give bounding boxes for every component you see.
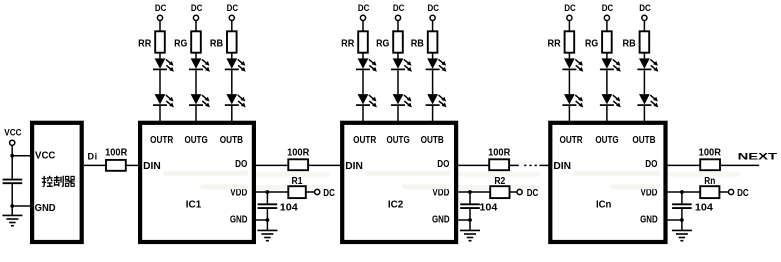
svg-text:IC1: IC1 — [186, 199, 202, 210]
svg-text:Rn: Rn — [704, 176, 715, 187]
svg-text:RR: RR — [548, 38, 562, 49]
svg-text:104: 104 — [280, 203, 298, 214]
svg-text:100R: 100R — [287, 147, 310, 158]
svg-text:OUTG: OUTG — [185, 135, 208, 146]
svg-text:104: 104 — [479, 203, 497, 214]
svg-text:NEXT: NEXT — [738, 151, 778, 161]
svg-text:OUTR: OUTR — [150, 135, 174, 146]
svg-text:GND: GND — [432, 214, 450, 225]
svg-text:OUTG: OUTG — [387, 135, 410, 146]
svg-text:DC: DC — [155, 3, 167, 13]
svg-text:RR: RR — [341, 38, 355, 49]
svg-text:OUTR: OUTR — [353, 135, 377, 146]
svg-text:RB: RB — [411, 38, 424, 49]
svg-text:DC: DC — [227, 3, 239, 13]
svg-text:DC: DC — [358, 3, 370, 13]
svg-text:DC: DC — [393, 3, 405, 13]
svg-text:DO: DO — [645, 159, 657, 170]
svg-text:DC: DC — [737, 188, 749, 199]
svg-text:DO: DO — [235, 159, 247, 170]
svg-text:100R: 100R — [699, 148, 722, 159]
svg-text:DC: DC — [323, 188, 335, 199]
svg-text:GND: GND — [640, 214, 658, 225]
svg-text:GND: GND — [35, 203, 56, 214]
svg-text:VDD: VDD — [432, 188, 449, 199]
svg-text:DC: DC — [602, 3, 614, 13]
svg-text:OUTB: OUTB — [220, 135, 243, 146]
svg-text:OUTR: OUTR — [560, 135, 584, 146]
svg-text:DIN: DIN — [345, 161, 363, 172]
svg-text:GND: GND — [230, 214, 248, 225]
svg-text:Di: Di — [88, 151, 98, 162]
svg-text:DC: DC — [564, 3, 576, 13]
svg-text:DIN: DIN — [143, 161, 161, 172]
svg-text:RG: RG — [376, 38, 389, 49]
svg-text:DIN: DIN — [553, 161, 571, 172]
svg-text:DC: DC — [527, 188, 539, 199]
svg-text:OUTB: OUTB — [632, 135, 655, 146]
svg-text:R2: R2 — [494, 176, 505, 187]
svg-text:RG: RG — [174, 38, 187, 49]
svg-text:100R: 100R — [488, 147, 511, 158]
svg-text:RB: RB — [210, 38, 223, 49]
svg-text:DO: DO — [437, 159, 449, 170]
svg-text:DC: DC — [191, 3, 203, 13]
svg-text:100R: 100R — [105, 147, 128, 158]
svg-text:VDD: VDD — [641, 188, 658, 199]
svg-text:RG: RG — [585, 38, 598, 49]
svg-text:VCC: VCC — [35, 151, 55, 162]
svg-text:DC: DC — [639, 3, 651, 13]
svg-text:R1: R1 — [292, 176, 303, 187]
svg-text:ICn: ICn — [596, 199, 611, 210]
svg-text:DC: DC — [427, 3, 439, 13]
svg-text:RR: RR — [138, 38, 152, 49]
svg-text:VDD: VDD — [230, 188, 247, 199]
svg-text:OUTG: OUTG — [595, 135, 618, 146]
svg-text:VCC: VCC — [4, 127, 22, 137]
svg-text:OUTB: OUTB — [421, 135, 444, 146]
svg-text:IC2: IC2 — [388, 199, 404, 210]
svg-text:RB: RB — [623, 38, 636, 49]
svg-text:104: 104 — [695, 203, 713, 214]
